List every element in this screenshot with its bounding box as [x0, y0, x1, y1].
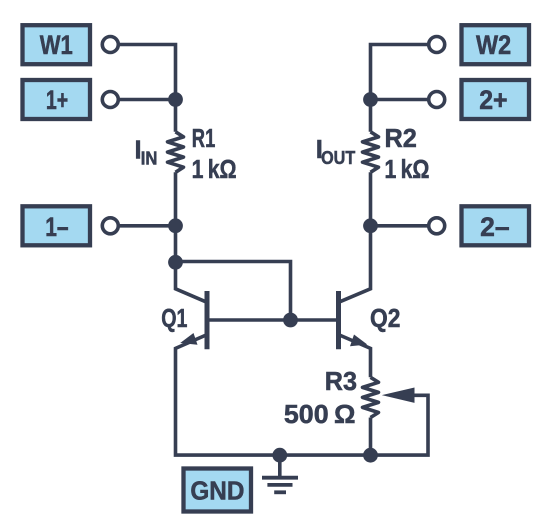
- wire R3 bottom to bottom rail: [369, 418, 373, 456]
- svg-text:Q1: Q1: [161, 305, 187, 333]
- junction node collector tie: [168, 255, 183, 270]
- terminal box 1+: [23, 80, 91, 119]
- svg-text:R3: R3: [325, 368, 357, 396]
- wire left rail through 1- down to Q1 collector: [176, 172, 208, 302]
- svg-text:W2: W2: [476, 30, 511, 60]
- svg-text:1–: 1–: [45, 212, 68, 242]
- terminal box 1-: [23, 206, 91, 245]
- wire Q2 emitter down to R3: [339, 335, 371, 378]
- resistor R3: [363, 377, 379, 417]
- svg-text:R2: R2: [385, 125, 417, 153]
- svg-text:GND: GND: [190, 476, 244, 506]
- terminal box GND: [184, 469, 252, 512]
- potentiometer R3 wiper arrow: [382, 388, 415, 403]
- wire 1- stub: [117, 224, 176, 228]
- svg-text:R1: R1: [192, 125, 216, 153]
- transistor Q1 base bar: [205, 291, 210, 349]
- junction node 2-/rail: [363, 218, 378, 233]
- transistor Q2 base bar: [336, 291, 341, 349]
- svg-text:IN: IN: [141, 149, 158, 169]
- resistor R1: [168, 132, 184, 173]
- wire W2 stub to right rail top: [371, 45, 429, 132]
- svg-text:W1: W1: [40, 30, 73, 60]
- svg-text:1 kΩ: 1 kΩ: [385, 156, 430, 184]
- svg-text:2–: 2–: [480, 212, 510, 242]
- terminal box W1: [23, 25, 91, 64]
- svg-text:1 kΩ: 1 kΩ: [192, 156, 237, 184]
- terminal box 2-: [462, 206, 530, 245]
- junction node 1+/rail: [168, 92, 183, 107]
- wire right rail down to Q2 collector: [339, 172, 371, 302]
- wire 1+ stub: [117, 98, 176, 102]
- resistor R2: [363, 132, 379, 173]
- terminal circle 2+: [429, 92, 445, 108]
- svg-text:1+: 1+: [46, 85, 68, 115]
- wire 2+ stub: [371, 98, 429, 102]
- terminal circle 2-: [429, 218, 445, 234]
- junction node base tie: [283, 313, 298, 328]
- wire 2- stub: [371, 224, 429, 228]
- terminal box W2: [462, 25, 530, 64]
- wire W1 stub to left rail top: [117, 45, 176, 132]
- terminal box 2+: [462, 80, 530, 119]
- svg-text:Q2: Q2: [370, 305, 400, 333]
- transistor Q1 emitter arrow: [180, 333, 197, 345]
- junction node 2+/rail: [363, 92, 378, 107]
- terminal circle W2: [429, 37, 445, 53]
- ground symbol bars: [262, 478, 298, 493]
- svg-text:500 Ω: 500 Ω: [284, 401, 356, 429]
- wire base Q1 to Q2: [208, 318, 339, 322]
- terminal circle W1: [102, 37, 118, 53]
- terminal circle 1+: [102, 92, 118, 108]
- svg-text:2+: 2+: [479, 85, 507, 115]
- junction node 1-/rail: [168, 218, 183, 233]
- junction node ground: [272, 448, 287, 463]
- wire Q1 emitter, bottom rail, wiper return: [176, 335, 429, 456]
- svg-text:OUT: OUT: [321, 148, 355, 168]
- transistor Q2 emitter arrow: [350, 335, 367, 347]
- terminal circle 1-: [102, 218, 118, 234]
- wire collector-base tie: [176, 262, 291, 321]
- junction node R3 bottom: [363, 448, 378, 463]
- ground stub: [278, 455, 282, 478]
